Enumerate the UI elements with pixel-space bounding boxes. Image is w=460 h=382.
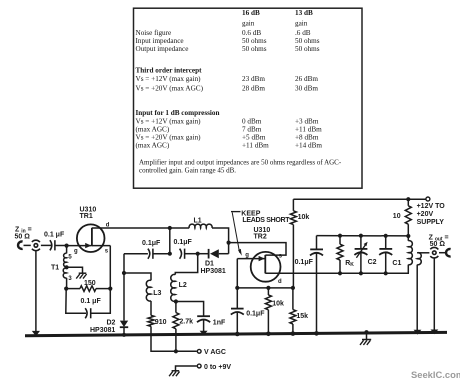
svg-text:(max AGC): (max AGC) <box>136 142 170 150</box>
transformer T1 upper winding <box>64 253 67 266</box>
svg-text:L1: L1 <box>194 218 202 225</box>
svg-text:g: g <box>74 248 78 254</box>
leader arrow to gate wire <box>232 212 242 255</box>
inductor L2 <box>171 274 176 301</box>
diode D2 <box>120 321 128 335</box>
wire 910 to AGC line <box>151 326 176 351</box>
node Rk bottom <box>338 271 342 275</box>
wire T1 bottom to node <box>66 278 68 289</box>
wire D2 anode <box>123 273 125 321</box>
capacitor 0.1uF TR2 gate <box>231 309 244 334</box>
node main-drain junction <box>168 252 172 256</box>
svg-text:RK: RK <box>345 260 354 268</box>
svg-text:TR2: TR2 <box>254 233 267 240</box>
wire L1 right to corner <box>212 228 229 254</box>
resistor 150 <box>80 286 96 292</box>
capacitor C2 variable <box>354 236 367 274</box>
capacitor 1nF <box>197 316 210 334</box>
svg-text:50 ohms: 50 ohms <box>242 37 267 45</box>
transistor TR2 body circle <box>251 252 281 282</box>
svg-text:50 ohms: 50 ohms <box>295 37 320 45</box>
capacitor 0.1uF input <box>50 240 55 250</box>
junction jack J2 to rail <box>431 330 439 335</box>
wire D2 node to L3 <box>124 273 151 280</box>
wire AGC line <box>176 350 197 352</box>
svg-text:0.1μF: 0.1μF <box>142 240 161 247</box>
svg-text:0.1μF: 0.1μF <box>174 239 193 246</box>
wire bypass loop left <box>66 289 86 314</box>
svg-text:HP3081: HP3081 <box>201 268 226 275</box>
svg-text:28 dBm: 28 dBm <box>242 84 265 92</box>
svg-text:+5 dBm: +5 dBm <box>242 134 266 142</box>
svg-text:26 dBm: 26 dBm <box>295 75 318 83</box>
svg-text:+12V TO: +12V TO <box>417 203 446 210</box>
wire main line to C2cap <box>124 253 148 255</box>
svg-text:d: d <box>278 279 282 285</box>
svg-text:Amplifier input and output imp: Amplifier input and output impedances ar… <box>139 158 342 166</box>
label +12V TO +20V SUPPLY <box>417 203 446 226</box>
svg-text:0.1 μF: 0.1 μF <box>81 298 102 305</box>
svg-text:13 dB: 13 dB <box>295 9 313 17</box>
resistor 10k upper <box>290 199 296 288</box>
svg-text:23 dBm: 23 dBm <box>242 75 265 83</box>
svg-text:5: 5 <box>68 255 72 261</box>
svg-text:50 ohms: 50 ohms <box>295 45 320 53</box>
label U310 TR1 <box>80 206 97 220</box>
wire decoupled supply line <box>317 235 409 237</box>
node C2 bottom <box>359 271 363 275</box>
output coupling secondary winding <box>417 253 421 265</box>
svg-text:Noise figure: Noise figure <box>136 29 172 37</box>
svg-text:7 dBm: 7 dBm <box>242 125 262 133</box>
svg-text:150: 150 <box>84 280 96 287</box>
output plug crescent <box>446 249 451 256</box>
svg-text:10k: 10k <box>298 214 310 221</box>
node AGC junction <box>174 349 178 353</box>
svg-text:0.1μF: 0.1μF <box>295 259 314 266</box>
svg-text:D2: D2 <box>107 320 116 327</box>
svg-text:L2: L2 <box>179 282 187 289</box>
node C1 top <box>384 234 388 238</box>
svg-text:1nF: 1nF <box>213 319 226 326</box>
svg-text:910: 910 <box>155 319 167 326</box>
transistor TR2 gate lead with arrow <box>237 256 264 261</box>
inductor L1 <box>189 224 212 228</box>
wire secondary bottom to rail <box>416 265 418 334</box>
input jack J1 <box>32 240 40 250</box>
svg-text:0.6 dB: 0.6 dB <box>242 29 261 37</box>
svg-text:+11 dBm: +11 dBm <box>295 125 322 133</box>
resistor 2.7k <box>173 302 179 329</box>
svg-text:d: d <box>106 223 110 229</box>
output jack J2 <box>430 247 438 257</box>
resistor 15k <box>290 288 296 334</box>
capacitor C1 <box>379 236 392 273</box>
wire node to R 150 <box>66 288 80 290</box>
svg-text:Output impedance: Output impedance <box>136 45 189 53</box>
node D1 anode junction <box>196 252 200 256</box>
RF choke primary winding <box>408 241 412 265</box>
svg-text:10k: 10k <box>272 300 284 307</box>
junction secondary to rail <box>414 330 422 335</box>
svg-text:HP3081: HP3081 <box>90 327 115 334</box>
svg-text:gain: gain <box>242 20 255 28</box>
transistor TR1 channel bar <box>91 228 93 246</box>
node L2 bottom <box>174 299 178 303</box>
svg-text:Vs = +20V (max AGC): Vs = +20V (max AGC) <box>136 84 204 92</box>
wire jack J2 ground drop <box>433 258 435 333</box>
node neutralization junction <box>227 241 231 245</box>
svg-text:TR1: TR1 <box>80 213 93 220</box>
capacitor 0.1uF interstage B <box>180 249 185 259</box>
wire main line left end down <box>123 254 125 273</box>
junction D2 to rail <box>122 333 126 337</box>
svg-text:controlled gain. Gain range 45: controlled gain. Gain range 45 dB. <box>139 166 236 174</box>
label D2 HP3081 <box>90 320 116 334</box>
wire TR1 source down <box>109 246 111 289</box>
transistor TR2 channel bar <box>264 255 266 274</box>
node T1 bottom <box>64 287 68 291</box>
transformer T1 lower winding <box>63 268 66 278</box>
node source branch <box>108 287 112 291</box>
svg-text:16 dB: 16 dB <box>242 9 260 17</box>
svg-text:3: 3 <box>68 276 72 282</box>
node C2 top <box>359 234 363 238</box>
svg-text:SeekIC.com: SeekIC.com <box>411 369 460 380</box>
resistor 910 <box>148 301 154 327</box>
transistor TR1 gate lead with arrow <box>67 243 92 248</box>
chassis ground 0to9V <box>169 371 179 376</box>
terminal supply <box>426 197 430 201</box>
wire T1 tap <box>67 267 83 273</box>
wire choke bottom to drain line <box>407 265 409 274</box>
svg-text:15k: 15k <box>296 313 308 320</box>
junction gate-bypass to rail <box>235 332 240 337</box>
node Rk top <box>338 234 342 238</box>
wire D1 node down <box>175 254 197 275</box>
chassis ground T1 tap <box>76 273 86 278</box>
diode D1 <box>198 249 229 259</box>
junction decoupling-cap to rail <box>314 331 319 336</box>
table: spec text rows <box>136 9 342 174</box>
svg-text:0.1 μF: 0.1 μF <box>44 232 65 239</box>
label Zin 50 ohms <box>15 227 32 241</box>
wire 2.7k to AGC line <box>175 329 177 352</box>
wire gate bias line <box>237 287 293 289</box>
wire jack J1 ground drop <box>35 250 37 334</box>
wire choke top stub <box>407 236 409 241</box>
svg-text:g: g <box>245 252 249 258</box>
svg-text:+20V: +20V <box>417 211 434 218</box>
node D2 top <box>122 271 126 275</box>
svg-text:Input for 1 dB compression: Input for 1 dB compression <box>136 109 220 117</box>
svg-text:+3 dBm: +3 dBm <box>295 117 319 125</box>
transistor TR1 source lead <box>92 245 110 247</box>
junction 15k to rail <box>291 331 296 336</box>
wire supply rail <box>293 198 426 200</box>
svg-text:D1: D1 <box>205 260 214 267</box>
transistor TR1 drain lead <box>92 227 189 229</box>
junction jack ground to rail <box>32 331 40 336</box>
svg-text:C1: C1 <box>392 260 401 267</box>
svg-text:L3: L3 <box>153 290 161 297</box>
capacitor 0.1uF source bypass <box>85 308 91 318</box>
wire capA to drain node <box>153 253 170 255</box>
junction 10k-bias to rail <box>266 332 271 337</box>
chassis ground on rail <box>360 330 371 345</box>
node gate TR1 <box>65 244 69 248</box>
svg-text:0 to +9V: 0 to +9V <box>204 364 231 371</box>
svg-text:Third order intercept: Third order intercept <box>136 66 203 74</box>
resistor 10k bias lower <box>265 288 271 334</box>
svg-text:+14 dBm: +14 dBm <box>295 142 322 150</box>
terminal V AGC <box>197 349 201 353</box>
svg-text:C2: C2 <box>368 259 377 266</box>
wire TR2 gate down <box>236 259 238 288</box>
svg-text:50 Ω: 50 Ω <box>15 234 31 241</box>
note KEEP LEADS SHORT <box>231 210 290 224</box>
svg-text:50 ohms: 50 ohms <box>242 45 267 53</box>
resistor Rk <box>337 236 343 274</box>
node C1 bottom <box>384 271 388 275</box>
svg-text:Input impedance: Input impedance <box>136 37 184 45</box>
node 10k bias junction <box>266 286 270 290</box>
svg-text:V AGC: V AGC <box>204 349 226 356</box>
wire capB to D1 node <box>185 253 198 255</box>
junction 1nF to rail <box>200 331 208 336</box>
label Zout 50 ohms <box>429 234 449 248</box>
capacitor 0.1uF decoupling <box>310 236 323 334</box>
svg-text:LEADS SHORT: LEADS SHORT <box>242 217 290 224</box>
svg-text:.6 dB: .6 dB <box>295 29 311 37</box>
svg-text:SUPPLY: SUPPLY <box>417 219 445 226</box>
wire 1nF top <box>176 302 204 317</box>
wire TR2 drain output line <box>265 272 409 274</box>
svg-text:+8 dBm: +8 dBm <box>295 134 319 142</box>
wire bypass loop right <box>91 289 111 314</box>
inductor L3 <box>146 280 151 301</box>
svg-text:2.7k: 2.7k <box>179 318 193 325</box>
wire R150 to source branch <box>96 288 110 290</box>
node drain line junction <box>168 226 172 230</box>
wire drain node riser <box>169 228 171 254</box>
wire neutralization top <box>229 243 286 256</box>
node 15k junction <box>291 286 295 290</box>
svg-text:gain: gain <box>295 20 308 28</box>
wire jack J2 stub right <box>439 252 446 254</box>
transistor TR1 body circle <box>77 224 105 252</box>
wire jack J1 to C capacitor <box>41 244 51 246</box>
node TR2 gate bias <box>235 286 239 290</box>
table: spec box frame <box>134 8 363 188</box>
svg-text:0 dBm: 0 dBm <box>242 117 262 125</box>
capacitor 0.1uF interstage A <box>148 249 153 259</box>
node 10ohm bottom <box>406 234 410 238</box>
wire C to gate node <box>55 245 67 247</box>
svg-text:Vs = +12V (max gain): Vs = +12V (max gain) <box>136 117 202 125</box>
terminal 0 to +9V <box>197 364 201 368</box>
svg-text:+11 dBm: +11 dBm <box>242 142 269 150</box>
label U310 TR2 <box>254 227 271 241</box>
svg-text:s: s <box>105 249 109 255</box>
wire secondary top to jack <box>417 252 429 254</box>
node T1 tap <box>65 265 69 269</box>
input plug crescent <box>18 241 23 248</box>
wire gate bypass drop <box>236 288 238 309</box>
resistor 10 <box>405 199 411 236</box>
svg-text:T1: T1 <box>51 265 59 272</box>
label D1 HP3081 <box>201 260 226 275</box>
wire input plug to jack J1 <box>24 244 31 246</box>
wire gate node down to T1 <box>66 246 68 254</box>
svg-text:30 dBm: 30 dBm <box>295 84 318 92</box>
svg-text:(max AGC): (max AGC) <box>136 125 170 133</box>
svg-text:Vs = +20V (max gain): Vs = +20V (max gain) <box>136 134 202 142</box>
ground rail <box>25 332 447 335</box>
node supply 10ohm <box>406 197 410 201</box>
svg-text:Vs = +12V (max gain): Vs = +12V (max gain) <box>136 75 202 83</box>
svg-text:0.1μF: 0.1μF <box>246 311 265 318</box>
svg-text:10: 10 <box>393 213 401 220</box>
wire 0to9V lead <box>176 366 197 371</box>
